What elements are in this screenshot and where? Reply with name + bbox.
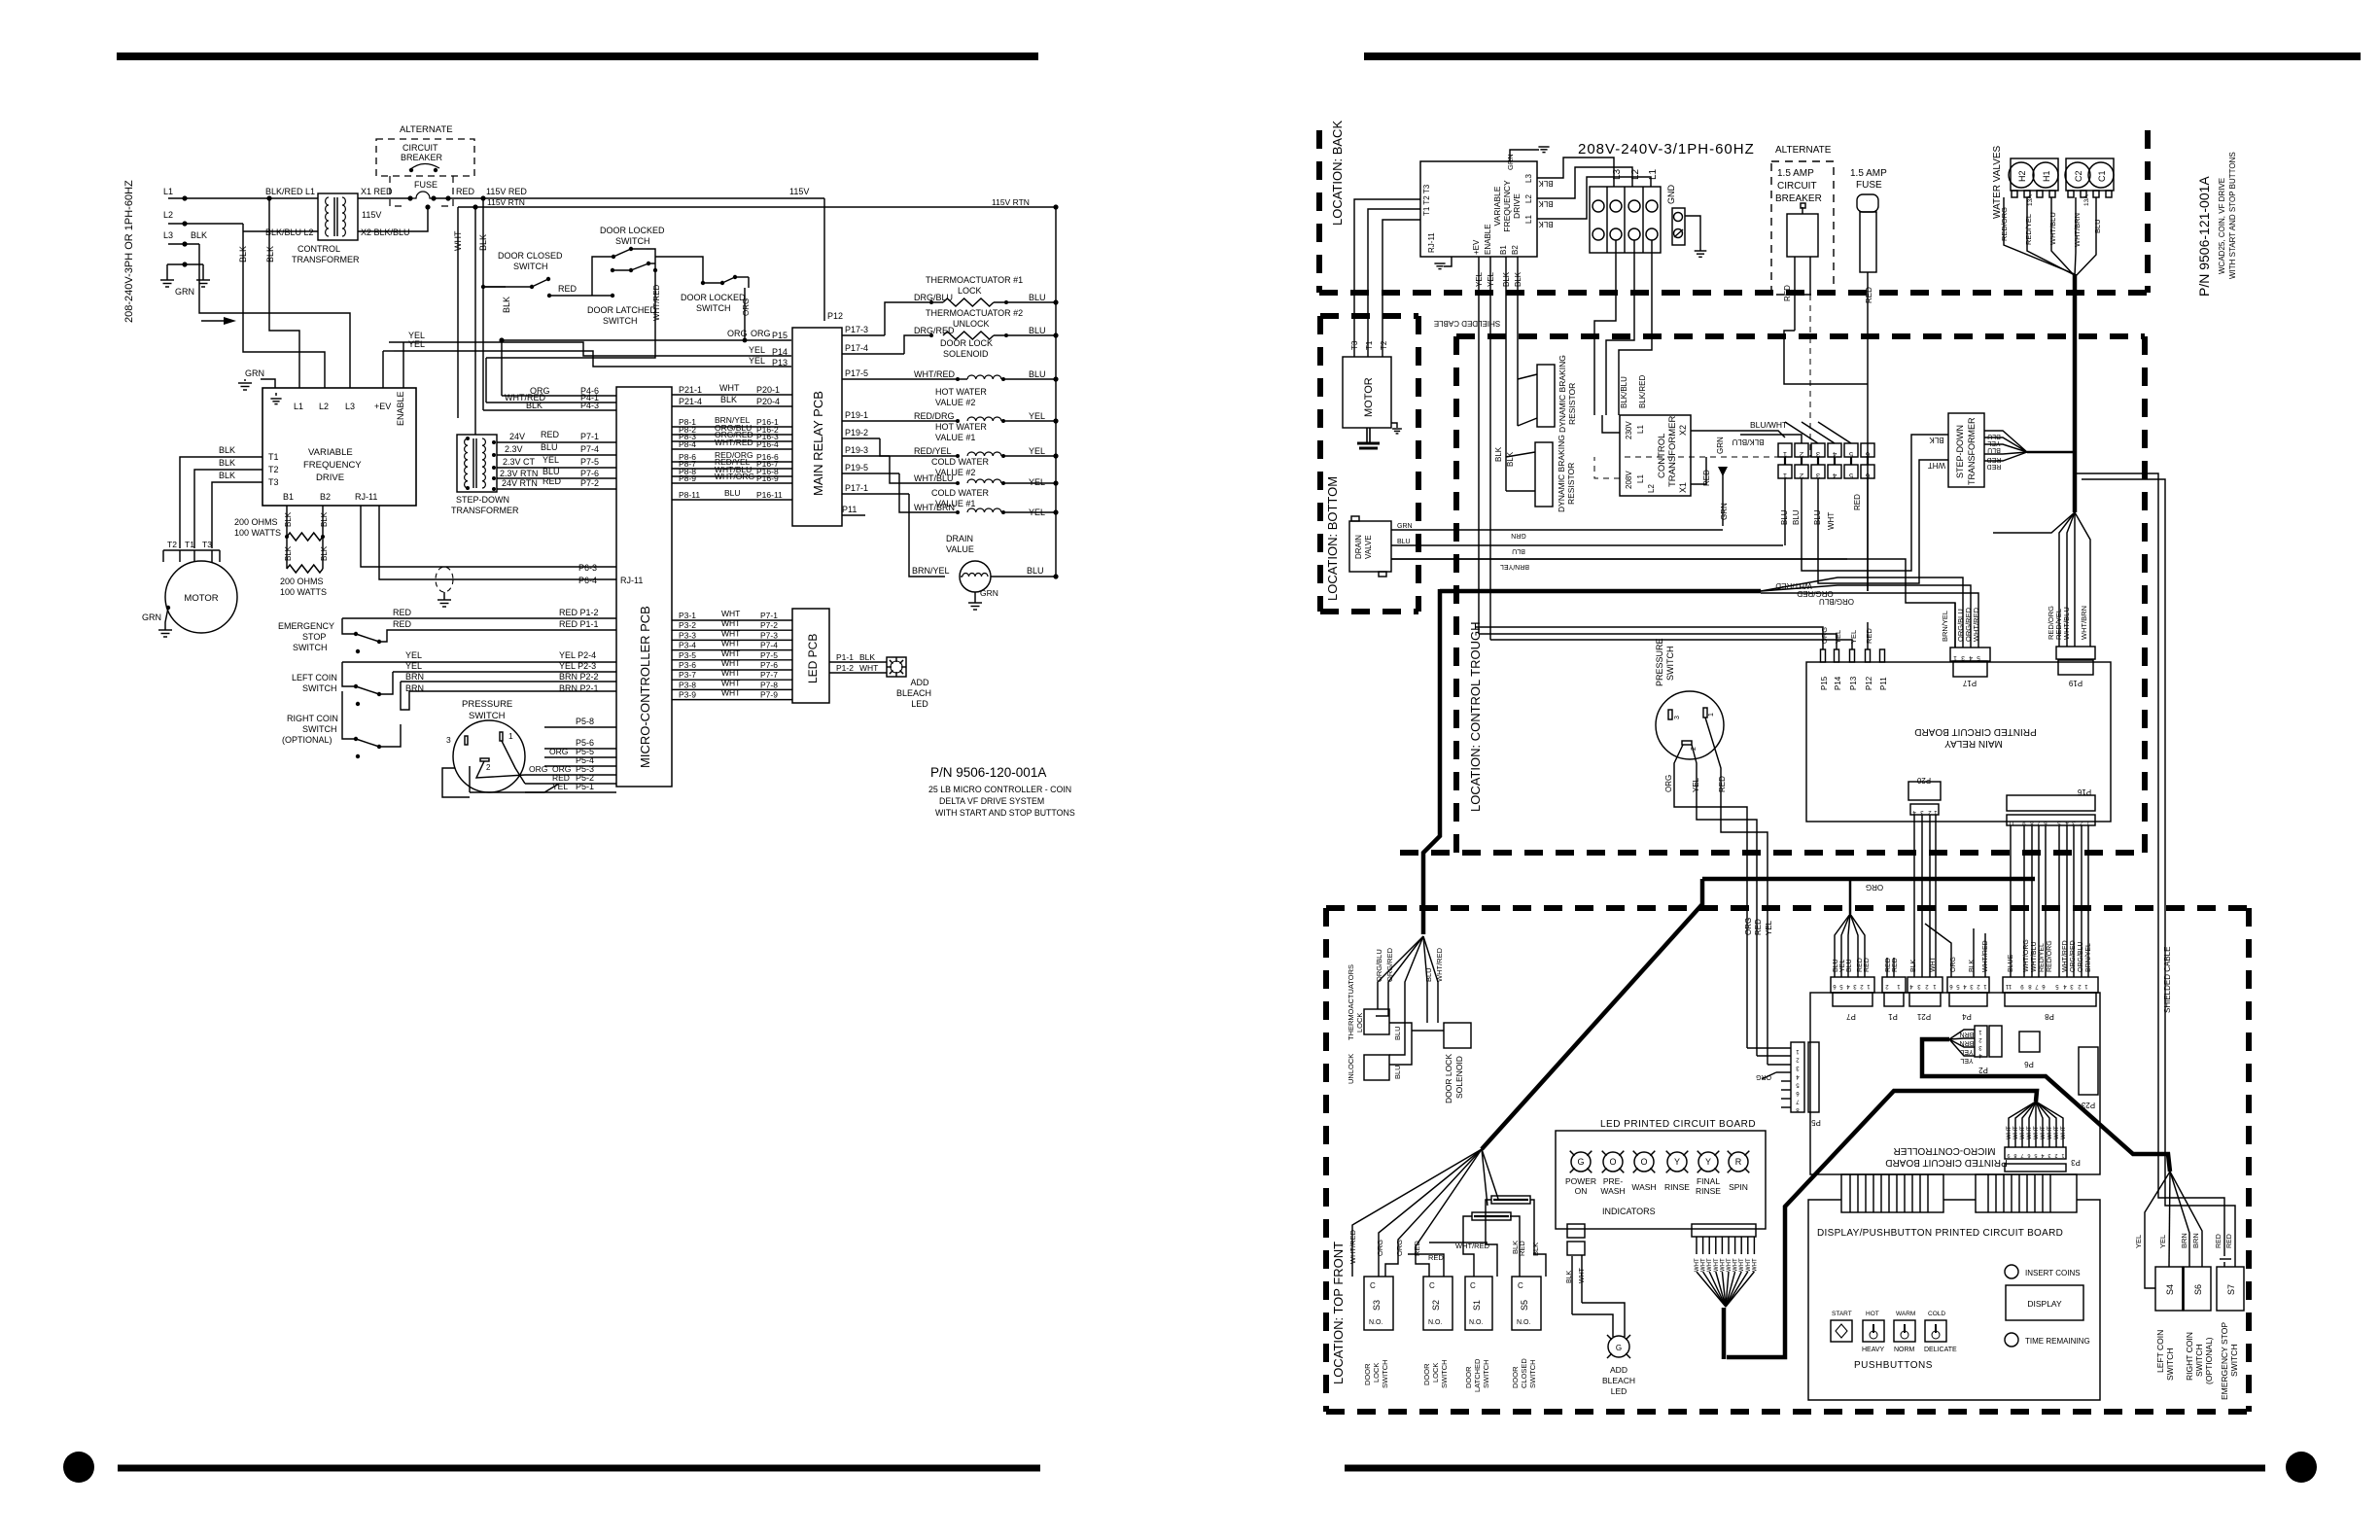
svg-text:FINAL: FINAL [1697, 1176, 1720, 1186]
svg-text:BLU: BLU [1029, 293, 1046, 302]
svg-text:SPIN: SPIN [1729, 1182, 1748, 1192]
svg-text:WHT: WHT [1720, 1258, 1726, 1272]
svg-text:PRESSURE: PRESSURE [1655, 638, 1664, 686]
P7 fan [1835, 914, 1850, 977]
water valve H2 [2011, 158, 2058, 191]
control transformer right page [1620, 415, 1691, 496]
svg-text:208V-240V-3/1PH-60HZ: 208V-240V-3/1PH-60HZ [1578, 141, 1755, 157]
svg-text:ORG: ORG [549, 747, 568, 756]
svg-text:RED: RED [393, 619, 412, 629]
svg-text:LEFT COIN: LEFT COIN [2155, 1330, 2165, 1373]
svg-text:DYNAMIC BRAKING: DYNAMIC BRAKING [1557, 435, 1566, 512]
svg-text:4: 4 [2041, 1152, 2044, 1158]
svg-text:9: 9 [2007, 1152, 2010, 1158]
svg-text:RED: RED [1865, 628, 1873, 644]
svg-text:P14: P14 [772, 347, 787, 357]
svg-text:TRANSFORMER: TRANSFORMER [292, 255, 360, 264]
svg-text:RINSE: RINSE [1664, 1182, 1690, 1192]
svg-text:WHT: WHT [2054, 1126, 2060, 1139]
svg-text:P7-6: P7-6 [580, 469, 599, 478]
svg-text:BLK/RED L1: BLK/RED L1 [265, 187, 315, 196]
svg-text:BLK: BLK [238, 246, 248, 262]
svg-text:ORG: ORG [742, 298, 751, 316]
svg-text:DOOR LATCHED: DOOR LATCHED [587, 305, 656, 315]
svg-text:115V RTN: 115V RTN [992, 197, 1030, 207]
svg-text:11: 11 [2005, 983, 2012, 989]
svg-text:+EV: +EV [1472, 239, 1481, 255]
svg-text:X1: X1 [1678, 482, 1688, 493]
svg-text:LOCK: LOCK [958, 286, 982, 296]
svg-text:1: 1 [1953, 654, 1957, 661]
wires P20 P16 down [1913, 815, 1915, 977]
circuit breaker symbol [409, 168, 413, 172]
wire L3 [168, 243, 199, 245]
svg-text:CONTROL: CONTROL [1657, 434, 1667, 478]
comb fingers left [1841, 1174, 1943, 1212]
P5 entry wires [1747, 1047, 1791, 1049]
svg-text:4: 4 [1833, 472, 1837, 480]
svg-text:S4: S4 [2165, 1284, 2175, 1295]
svg-text:WHT: WHT [1714, 1258, 1720, 1272]
comb fingers right [1976, 1174, 2077, 1212]
svg-text:L1: L1 [294, 402, 303, 411]
svg-text:2: 2 [2054, 1152, 2057, 1158]
P17 connector [1950, 647, 1990, 661]
svg-text:BRN P2-2: BRN P2-2 [559, 672, 599, 682]
svg-text:P3-5: P3-5 [679, 650, 696, 660]
svg-text:BLU: BLU [1397, 539, 1411, 545]
arrow feed [201, 320, 233, 322]
svg-text:DRAIN: DRAIN [946, 534, 973, 543]
svg-text:B1: B1 [1499, 245, 1508, 255]
svg-text:ORG: ORG [529, 764, 547, 774]
svg-text:BRN: BRN [405, 672, 424, 682]
step-down transformer T2 [457, 435, 497, 492]
svg-text:WHT: WHT [719, 383, 740, 393]
wire L2 [168, 223, 243, 225]
svg-text:P3-9: P3-9 [679, 690, 696, 700]
svg-text:Y: Y [1674, 1157, 1680, 1167]
svg-text:BLK: BLK [1910, 959, 1917, 972]
svg-text:BREAKER: BREAKER [401, 153, 443, 162]
svg-text:COLD: COLD [1928, 1311, 1945, 1317]
svg-text:RJ-11: RJ-11 [620, 576, 643, 585]
svg-text:13A: 13A [2027, 194, 2034, 206]
svg-text:11: 11 [2008, 820, 2014, 825]
svg-text:GRN: GRN [1511, 532, 1526, 539]
svg-text:DOOR LOCKED: DOOR LOCKED [600, 226, 665, 235]
svg-text:GND: GND [1666, 185, 1676, 205]
coin switch fan [2145, 1172, 2170, 1288]
svg-text:FUSE: FUSE [1856, 180, 1882, 191]
svg-text:X1 RED: X1 RED [361, 187, 393, 196]
svg-text:ALTERNATE: ALTERNATE [400, 124, 453, 135]
svg-text:UNLOCK: UNLOCK [1347, 1054, 1355, 1084]
svg-text:RED: RED [456, 187, 475, 196]
svg-text:P19-3: P19-3 [845, 445, 868, 455]
svg-text:WHT: WHT [721, 609, 740, 618]
wires into relay pins [1475, 627, 1823, 649]
svg-text:WCAD25, COIN, VF DRIVE: WCAD25, COIN, VF DRIVE [2218, 178, 2226, 274]
svg-text:LED PCB: LED PCB [806, 634, 820, 683]
location back dashed border [1316, 130, 1322, 293]
svg-text:FREQUENCY: FREQUENCY [303, 460, 362, 471]
svg-text:WHT/RED: WHT/RED [1972, 607, 1980, 642]
svg-text:BRN: BRN [2180, 1233, 2188, 1248]
svg-text:P17: P17 [1962, 679, 1977, 687]
svg-text:P3-8: P3-8 [679, 680, 696, 689]
svg-text:SHIELDED CABLE: SHIELDED CABLE [1434, 319, 1500, 328]
water valve C1 [2088, 162, 2114, 188]
wire X1 to fuse [358, 197, 410, 199]
svg-text:P6-4: P6-4 [578, 576, 597, 585]
svg-text:2.3V RTN: 2.3V RTN [500, 469, 538, 478]
svg-text:1: 1 [2061, 1152, 2064, 1158]
svg-text:115V: 115V [362, 210, 381, 220]
svg-text:WHT/ORG: WHT/ORG [715, 472, 754, 481]
svg-text:CONTROL: CONTROL [297, 244, 340, 254]
terminal block TB1 [1590, 187, 1661, 253]
svg-text:100 WATTS: 100 WATTS [234, 528, 281, 538]
svg-text:P2: P2 [1978, 1066, 1988, 1074]
svg-text:HOT WATER: HOT WATER [935, 387, 987, 397]
svg-text:BLU: BLU [1029, 326, 1046, 335]
svg-text:CIRCUIT: CIRCUIT [1777, 181, 1817, 192]
fuse dashed box [390, 176, 402, 206]
svg-text:RED/DRG: RED/DRG [914, 411, 955, 421]
svg-text:O: O [1640, 1157, 1647, 1167]
svg-text:SWITCH: SWITCH [1482, 1359, 1490, 1388]
svg-text:YEL: YEL [1834, 630, 1842, 644]
svg-text:BLK/BLU: BLK/BLU [1620, 376, 1628, 408]
svg-text:L2: L2 [1647, 484, 1656, 493]
svg-text:P7-2: P7-2 [580, 478, 599, 488]
svg-text:WHT: WHT [721, 688, 740, 698]
svg-text:4: 4 [1969, 654, 1973, 661]
svg-text:WHT/BLU: WHT/BLU [914, 473, 954, 483]
nav dot bottom right [2286, 1452, 2317, 1483]
svg-text:RED: RED [1754, 919, 1763, 935]
svg-text:DOOR: DOOR [1422, 1363, 1431, 1385]
svg-text:WHT: WHT [721, 648, 740, 658]
svg-text:S5: S5 [1520, 1300, 1529, 1311]
svg-text:HEAVY: HEAVY [1862, 1347, 1885, 1353]
svg-text:COLD WATER: COLD WATER [931, 457, 990, 467]
svg-text:BRN/YEL: BRN/YEL [912, 566, 950, 576]
svg-text:WHT: WHT [1752, 1258, 1758, 1272]
svg-text:BLU: BLU [542, 467, 560, 476]
svg-text:P7-2: P7-2 [760, 620, 778, 630]
wires door interconnect [486, 249, 655, 358]
svg-text:L2: L2 [163, 210, 173, 220]
svg-text:LATCHED: LATCHED [1473, 1358, 1482, 1392]
svg-text:L3: L3 [163, 230, 173, 240]
svg-text:P13: P13 [772, 358, 787, 367]
svg-text:ORG: ORG [751, 329, 771, 338]
svg-text:GRN: GRN [980, 588, 998, 598]
svg-text:RED: RED [2226, 1234, 2233, 1248]
svg-text:BREAKER: BREAKER [1775, 193, 1822, 204]
svg-text:S1: S1 [1472, 1300, 1482, 1311]
svg-text:BLEACH: BLEACH [1602, 1376, 1635, 1385]
breaker body [1787, 214, 1818, 257]
svg-text:WASH: WASH [1600, 1186, 1625, 1196]
svg-text:YEL: YEL [1029, 411, 1045, 421]
svg-text:UNLOCK: UNLOCK [953, 319, 990, 329]
svg-text:L2: L2 [1630, 168, 1641, 180]
svg-text:YEL: YEL [1839, 960, 1846, 972]
svg-text:ENABLE: ENABLE [1484, 224, 1492, 255]
VFD left wires to motor [1354, 199, 1420, 357]
svg-text:B2: B2 [1511, 245, 1520, 255]
emergency stop wires [2076, 473, 2224, 1256]
svg-text:LOCATION: BACK: LOCATION: BACK [1330, 121, 1345, 226]
dynamic braking resistor 1 [1537, 365, 1555, 427]
svg-text:P11: P11 [842, 505, 857, 514]
svg-text:+EV: +EV [374, 402, 391, 411]
svg-text:TRANSFORMER: TRANSFORMER [451, 506, 519, 515]
wire enable drop [402, 342, 404, 388]
svg-text:BLU: BLU [1987, 446, 2001, 453]
svg-text:WITH START AND STOP BUTTON: WITH START AND STOP BUTTONS [935, 808, 1075, 818]
svg-text:B2: B2 [320, 492, 331, 502]
svg-text:GRN: GRN [1397, 523, 1413, 530]
svg-text:RIGHT COIN: RIGHT COIN [2185, 1332, 2194, 1381]
svg-text:P20-4: P20-4 [756, 397, 780, 406]
main relay PCB right page [1806, 662, 2111, 822]
svg-text:SWITCH: SWITCH [293, 643, 328, 652]
svg-text:BLK: BLK [859, 652, 875, 662]
svg-text:RED: RED [2216, 1234, 2222, 1248]
svg-text:1: 1 [508, 731, 513, 741]
wire L1 115V RED [168, 197, 318, 199]
svg-text:5: 5 [1849, 472, 1853, 480]
svg-text:LOCATION: TOP FRONT: LOCATION: TOP FRONT [1331, 1242, 1346, 1384]
svg-text:WHT: WHT [1739, 1258, 1745, 1272]
svg-text:BRN/YEL: BRN/YEL [1941, 611, 1949, 642]
svg-text:P19-5: P19-5 [845, 463, 868, 472]
door switch S1 [1465, 1277, 1492, 1330]
svg-text:WHT: WHT [1930, 956, 1937, 972]
svg-text:YEL: YEL [405, 650, 422, 660]
svg-text:L3: L3 [345, 402, 355, 411]
svg-text:YEL P2-3: YEL P2-3 [559, 661, 596, 671]
svg-text:VALUE #1: VALUE #1 [935, 433, 975, 442]
svg-text:C: C [1429, 1281, 1435, 1290]
svg-text:C: C [1518, 1281, 1523, 1290]
svg-text:ORG: ORG [1744, 918, 1753, 935]
svg-text:G: G [1577, 1157, 1584, 1167]
svg-text:P7-5: P7-5 [760, 650, 778, 660]
P21 connector [1907, 977, 1942, 993]
svg-text:BLK: BLK [720, 395, 737, 404]
svg-text:SWITCH: SWITCH [513, 262, 548, 271]
location top front dashed box [1323, 908, 1329, 1412]
svg-text:L3: L3 [1612, 168, 1623, 180]
svg-text:ORG/BLU: ORG/BLU [2078, 941, 2084, 972]
svg-text:P8-9: P8-9 [679, 473, 696, 483]
LED PCB U4 [792, 609, 829, 703]
wire to step-down primary [474, 207, 476, 435]
svg-text:P8-4: P8-4 [679, 439, 696, 449]
svg-text:S2: S2 [1431, 1300, 1441, 1311]
svg-text:P1-1: P1-1 [836, 652, 854, 662]
thick wire P2 to coin switch fan [1922, 1039, 2170, 1172]
svg-text:1.5 AMP: 1.5 AMP [1777, 168, 1814, 179]
svg-text:X2 BLK/BLU: X2 BLK/BLU [361, 227, 410, 237]
svg-text:P17-1: P17-1 [845, 483, 868, 493]
door lock solenoid box [1444, 1023, 1471, 1048]
svg-text:P20-1: P20-1 [756, 385, 780, 395]
svg-text:BLK: BLK [265, 246, 275, 262]
svg-text:P7-4: P7-4 [580, 444, 599, 454]
svg-text:P5: P5 [1811, 1118, 1821, 1127]
wire L3 drop [199, 244, 350, 388]
svg-text:BLU: BLU [1987, 433, 2001, 439]
svg-text:YEL: YEL [405, 661, 422, 671]
svg-text:BLU: BLU [2093, 219, 2102, 233]
thick wire micro to display [1727, 1091, 2037, 1357]
svg-text:BLU: BLU [1846, 959, 1853, 972]
location bottom dashed box [1317, 316, 1323, 612]
display [2006, 1285, 2083, 1320]
GND wire and ground [1685, 216, 1700, 251]
svg-text:WHT: WHT [2020, 1126, 2026, 1139]
svg-text:FREQUENCY: FREQUENCY [1502, 180, 1512, 232]
wire drops to P4 [501, 340, 503, 396]
svg-text:L1: L1 [163, 187, 173, 196]
svg-text:WHT: WHT [859, 663, 878, 673]
svg-text:P16-9: P16-9 [756, 473, 779, 483]
svg-text:WHT: WHT [721, 628, 740, 638]
nav dot bottom left [63, 1452, 94, 1483]
svg-text:P14: P14 [1834, 676, 1842, 690]
svg-text:BLK: BLK [1506, 451, 1515, 467]
svg-text:GRN: GRN [1716, 437, 1725, 454]
svg-text:FUSE: FUSE [414, 180, 437, 190]
svg-text:LED: LED [1611, 1386, 1627, 1396]
svg-text:RED: RED [542, 476, 562, 486]
svg-text:7: 7 [2020, 1152, 2023, 1158]
svg-text:P3-3: P3-3 [679, 630, 696, 640]
svg-text:YEL: YEL [1849, 630, 1858, 644]
svg-text:BLK: BLK [219, 458, 235, 468]
P8 connector [2003, 977, 2098, 993]
svg-text:DRIVE: DRIVE [316, 472, 344, 483]
svg-text:T1 T2 T3: T1 T2 T3 [1422, 184, 1431, 216]
svg-text:BLU: BLU [1833, 959, 1839, 972]
svg-text:T2: T2 [1380, 340, 1388, 350]
svg-text:BRN: BRN [1960, 1039, 1975, 1046]
svg-text:P11: P11 [1879, 677, 1888, 690]
svg-text:WHT: WHT [1746, 1258, 1752, 1272]
svg-text:INSERT COINS: INSERT COINS [2025, 1269, 2081, 1277]
svg-text:WHT: WHT [721, 639, 740, 648]
P3 connector [2005, 1147, 2066, 1159]
control transformer left wires [1602, 415, 1620, 433]
main relay PCB U3 [792, 328, 842, 526]
svg-text:WHT: WHT [2013, 1126, 2019, 1139]
svg-text:P7-9: P7-9 [760, 690, 778, 700]
svg-text:25 LB MICRO CONTROLLER -: 25 LB MICRO CONTROLLER - COIN [928, 785, 1071, 794]
svg-text:DYNAMIC BRAKING: DYNAMIC BRAKING [1557, 355, 1567, 433]
svg-text:WHT/RED: WHT/RED [2062, 940, 2069, 972]
svg-text:RED: RED [1865, 287, 1873, 303]
svg-text:P19-2: P19-2 [845, 428, 868, 437]
svg-text:BLK: BLK [1969, 959, 1976, 972]
svg-text:R: R [1735, 1157, 1742, 1167]
svg-text:RED: RED [1853, 494, 1862, 510]
svg-text:BRN: BRN [2191, 1233, 2200, 1248]
P23 connector [2079, 1047, 2098, 1095]
P6 connector [2019, 1032, 2040, 1052]
svg-text:WHT: WHT [721, 618, 740, 628]
svg-text:P17-4: P17-4 [845, 343, 868, 353]
svg-text:ORG/RED: ORG/RED [2070, 940, 2077, 972]
svg-text:PRE-: PRE- [1603, 1176, 1623, 1186]
svg-text:YEL: YEL [1765, 920, 1773, 935]
svg-text:8: 8 [2013, 1152, 2016, 1158]
svg-text:RINSE: RINSE [1696, 1186, 1721, 1196]
svg-text:X2: X2 [1678, 425, 1688, 436]
svg-text:DRAIN: DRAIN [1354, 535, 1363, 559]
svg-text:ADD: ADD [1610, 1365, 1627, 1375]
svg-text:ENABLE: ENABLE [396, 391, 405, 426]
big thick wire from P2 to switches [1702, 877, 2035, 882]
svg-text:P7-1: P7-1 [580, 432, 599, 441]
svg-text:RED: RED [1892, 958, 1899, 972]
svg-text:BLU: BLU [1029, 369, 1046, 379]
top rule left page [117, 52, 1038, 60]
svg-text:ORG: ORG [1376, 1240, 1384, 1256]
svg-text:P23: P23 [2081, 1101, 2095, 1109]
svg-text:BLK: BLK [1538, 179, 1554, 188]
micro controller board right page [1810, 993, 2100, 1174]
svg-text:VALVE: VALVE [1364, 535, 1373, 559]
svg-text:S7: S7 [2226, 1284, 2236, 1295]
svg-text:GRN: GRN [245, 368, 264, 378]
svg-text:PRINTED CIRCUIT BOARD: PRINTED CIRCUIT BOARD [1885, 1157, 2007, 1168]
svg-text:RED: RED [1718, 776, 1727, 792]
svg-text:P/N 9506-120-001A: P/N 9506-120-001A [930, 765, 1046, 780]
svg-text:WHT: WHT [2047, 1126, 2053, 1139]
svg-text:GRN: GRN [175, 287, 194, 297]
svg-text:YEL: YEL [542, 455, 559, 465]
svg-text:WITH START AND STOP BUTTON: WITH START AND STOP BUTTONS [2228, 152, 2237, 279]
svg-text:THERMOACTUATOR #1: THERMOACTUATOR #1 [926, 275, 1023, 285]
svg-text:P13: P13 [1849, 676, 1858, 690]
svg-text:P21-1: P21-1 [679, 385, 702, 395]
svg-text:N.O.: N.O. [1517, 1319, 1530, 1326]
svg-text:LOCK: LOCK [1431, 1363, 1440, 1382]
svg-text:STEP-DOWN: STEP-DOWN [1955, 425, 1965, 478]
svg-text:VARIABLE: VARIABLE [308, 447, 353, 458]
svg-text:NORM: NORM [1894, 1347, 1915, 1353]
svg-text:P5-8: P5-8 [576, 717, 594, 726]
P19 connector [2056, 647, 2095, 659]
variable frequency drive U-VFD [262, 388, 416, 506]
svg-text:RED/ORG: RED/ORG [2047, 940, 2053, 972]
svg-text:WHT: WHT [2007, 1126, 2012, 1139]
svg-text:C2: C2 [2074, 170, 2083, 182]
svg-text:WHT/BRN: WHT/BRN [2080, 606, 2088, 640]
svg-text:WHT: WHT [721, 678, 740, 687]
svg-text:P15: P15 [1820, 676, 1829, 690]
svg-text:BLU/WHT: BLU/WHT [1750, 420, 1787, 430]
LED board connectors [1567, 1224, 1585, 1238]
svg-text:RIGHT COIN: RIGHT COIN [287, 714, 338, 723]
svg-text:3: 3 [446, 735, 451, 745]
